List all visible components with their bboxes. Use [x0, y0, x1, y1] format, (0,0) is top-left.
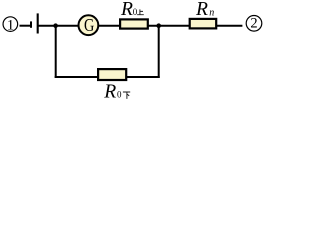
svg-text:G: G [84, 15, 94, 35]
svg-text:0: 0 [133, 7, 138, 17]
svg-text:1: 1 [7, 17, 15, 33]
svg-text:0: 0 [117, 90, 122, 100]
svg-text:2: 2 [250, 15, 257, 31]
svg-text:n: n [209, 7, 214, 18]
svg-text:R: R [120, 0, 133, 20]
svg-text:R: R [103, 81, 116, 102]
svg-text:R: R [195, 0, 208, 20]
